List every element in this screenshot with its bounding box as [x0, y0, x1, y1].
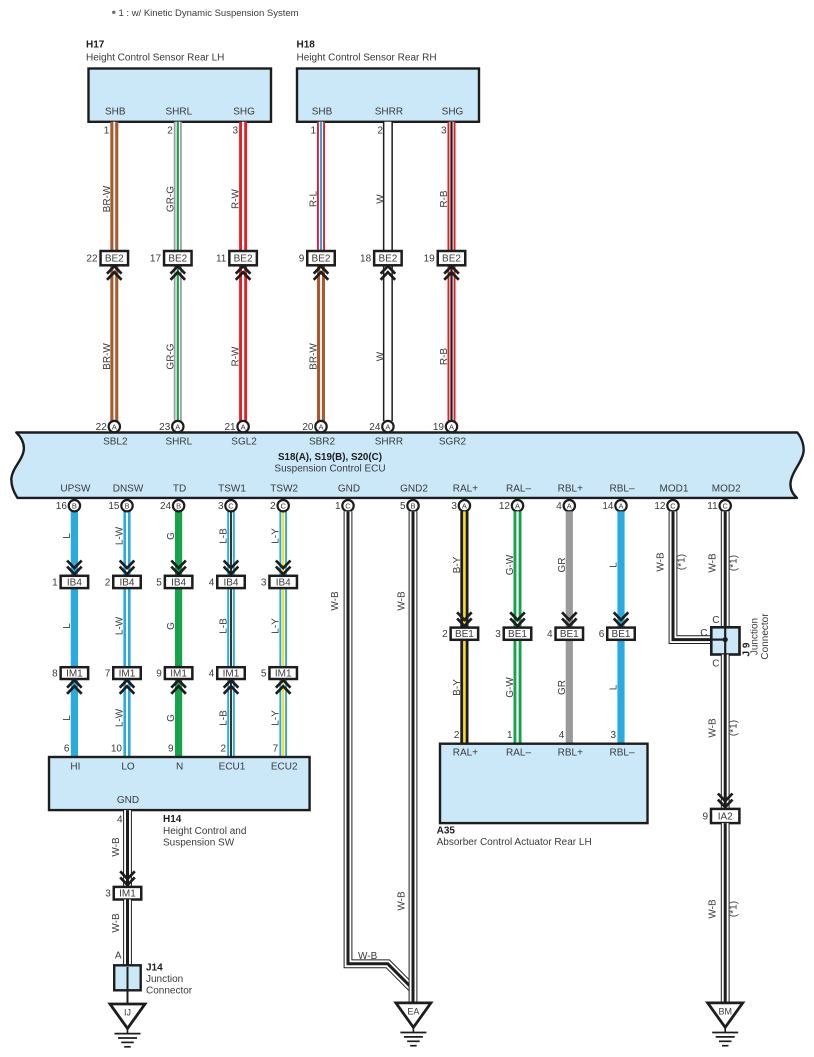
svg-text:BR-W: BR-W	[102, 343, 113, 370]
label H14 description line2	[163, 838, 235, 849]
H14 pin 7	[273, 744, 279, 755]
wire label BR-W	[102, 185, 113, 212]
svg-text:(*1): (*1)	[729, 720, 740, 736]
svg-text:SHG: SHG	[233, 107, 255, 118]
svg-text:Junction: Junction	[146, 974, 183, 985]
J9 pin C top	[712, 615, 719, 626]
svg-text:A: A	[115, 951, 122, 962]
connector BE1 pin 2	[442, 628, 478, 641]
svg-text:TSW1: TSW1	[218, 484, 246, 495]
svg-text:4: 4	[209, 669, 215, 680]
svg-text:RBL+: RBL+	[558, 484, 583, 495]
label A35	[437, 826, 456, 837]
wire SGR2 upper R-B	[448, 122, 456, 251]
svg-text:Suspension SW: Suspension SW	[163, 838, 235, 849]
A35 terminal RBL-	[609, 748, 634, 759]
H14 pin 2	[220, 744, 226, 755]
svg-text:G-W: G-W	[505, 554, 516, 575]
label J9	[742, 642, 753, 656]
svg-text:Absorber Control Actuator Rear: Absorber Control Actuator Rear LH	[437, 837, 592, 848]
J9 pin C bottom	[712, 659, 719, 670]
svg-text:(*1): (*1)	[677, 554, 688, 570]
wire label W-B GND2 upper	[397, 591, 408, 611]
svg-text:IB4: IB4	[67, 577, 82, 588]
ECU terminal SBR2	[309, 437, 336, 448]
connector BE2 pin 18	[360, 251, 402, 265]
svg-text:H17: H17	[86, 40, 105, 51]
wire label R-B	[439, 190, 450, 208]
H18 terminal SHRR	[375, 107, 403, 118]
svg-text:GR-G: GR-G	[165, 343, 176, 369]
svg-text:18: 18	[360, 254, 372, 265]
svg-text:H14: H14	[163, 814, 182, 825]
svg-text:3: 3	[218, 501, 224, 512]
wire label G upper	[166, 532, 177, 540]
ECU connector C pin 12 (MOD1)	[654, 500, 678, 512]
svg-text:BE2: BE2	[105, 254, 124, 265]
wire label L-W middle	[115, 616, 126, 635]
svg-text:4: 4	[547, 629, 553, 640]
ECU terminal SHRR	[375, 437, 403, 448]
svg-text:A: A	[241, 423, 246, 432]
wire label L-W upper	[115, 526, 126, 545]
A35 terminal RBL+	[558, 748, 583, 759]
svg-text:2: 2	[270, 501, 276, 512]
wire label L-Y upper	[271, 528, 282, 544]
svg-text:24: 24	[160, 501, 172, 512]
svg-text:2: 2	[442, 629, 448, 640]
svg-text:3: 3	[610, 730, 616, 741]
svg-text:12: 12	[499, 501, 511, 512]
svg-text:RBL–: RBL–	[609, 484, 634, 495]
ECU terminal MOD2	[712, 484, 741, 495]
svg-text:BE2: BE2	[312, 254, 331, 265]
ECU terminal SGL2	[231, 437, 257, 448]
svg-text:B: B	[176, 502, 181, 511]
svg-text:Height Control Sensor Rear LH: Height Control Sensor Rear LH	[86, 53, 224, 64]
pin 3 of H sensor	[233, 126, 239, 137]
wire SBL2 upper BR-W	[110, 122, 118, 251]
wire IM1 to J14 W-B	[123, 900, 132, 966]
svg-text:BE1: BE1	[560, 629, 579, 640]
label J14	[146, 963, 163, 974]
svg-text:SHRR: SHRR	[375, 107, 403, 118]
ECU connector B pin 15 (DNSW)	[108, 500, 132, 512]
A35 terminal RAL+	[453, 748, 478, 759]
connector arrows into BE1 6	[614, 612, 629, 626]
wire GND W-B	[348, 511, 413, 989]
H14 terminal HI	[70, 762, 80, 773]
ECU terminal UPSW	[60, 484, 91, 495]
svg-text:L-B: L-B	[219, 528, 230, 544]
connector IM1 pin 3	[105, 887, 141, 900]
svg-text:G-W: G-W	[505, 677, 516, 698]
wire label W-B above BM	[708, 899, 719, 919]
J9 pin C left	[700, 628, 707, 639]
connector arrows into BE2 22	[107, 266, 122, 280]
H14 terminal N	[176, 762, 183, 773]
wire label GR-G	[165, 343, 176, 369]
connector BE1 pin 3	[495, 628, 531, 641]
svg-text:IB4: IB4	[171, 577, 186, 588]
wire SBR2 upper R-L	[317, 122, 325, 251]
connector arrows into IM1 5	[276, 680, 291, 694]
svg-text:SHB: SHB	[105, 107, 126, 118]
connector IA2 pin 9	[702, 809, 739, 823]
svg-text:4: 4	[209, 577, 215, 588]
wire SGR2 lower R-B	[448, 265, 456, 421]
svg-text:R-W: R-W	[231, 346, 242, 367]
ECU terminal MOD1	[660, 484, 689, 495]
svg-text:IB4: IB4	[276, 577, 291, 588]
svg-text:LO: LO	[121, 762, 135, 773]
svg-text:A: A	[515, 502, 520, 511]
svg-text:SHRL: SHRL	[165, 437, 192, 448]
svg-text:BE1: BE1	[508, 629, 527, 640]
wire label L-Y middle	[271, 618, 282, 634]
connector BE1 pin 4	[547, 628, 583, 641]
svg-text:12: 12	[654, 501, 666, 512]
connector arrows into BE1 4	[562, 612, 577, 626]
svg-text:C: C	[712, 659, 719, 670]
wire label L upper	[62, 533, 73, 539]
svg-text:L: L	[609, 562, 620, 568]
svg-text:SGL2: SGL2	[231, 437, 257, 448]
component H17 Height Control Sensor Rear LH	[89, 69, 272, 122]
svg-text:L-W: L-W	[115, 616, 126, 635]
svg-text:IM1: IM1	[119, 669, 136, 680]
svg-text:W-B: W-B	[358, 951, 378, 962]
wire RAL- G-W	[514, 511, 522, 743]
wire label R-L	[309, 191, 320, 208]
junction dot J9	[723, 637, 728, 642]
wire label L-W lower	[115, 708, 126, 727]
connector BE2 pin 11	[216, 251, 257, 265]
ECU terminal GND2	[400, 484, 428, 495]
svg-text:8: 8	[52, 669, 58, 680]
svg-text:ECU2: ECU2	[271, 762, 298, 773]
svg-text:9: 9	[702, 812, 708, 823]
svg-text:1: 1	[310, 126, 316, 137]
ECU connector B pin 16 (UPSW)	[56, 500, 80, 512]
svg-text:3: 3	[441, 126, 447, 137]
svg-text:IB4: IB4	[119, 577, 134, 588]
H14 terminal LO	[121, 762, 135, 773]
ECU terminal GND	[338, 484, 360, 495]
wire N G	[175, 511, 182, 757]
svg-text:C: C	[345, 502, 351, 511]
wire label R-W	[231, 346, 242, 367]
H18 terminal SHB	[312, 107, 333, 118]
svg-text:IM1: IM1	[223, 669, 240, 680]
svg-text:2: 2	[167, 126, 173, 137]
ECU connector A pin 20 (SBR2)	[302, 421, 326, 433]
wire LO L-W	[123, 511, 130, 757]
wire RBL- L	[617, 511, 624, 743]
A35 pin 4	[559, 730, 565, 741]
connector arrows into BE2 9	[314, 266, 329, 280]
ECU connector A pin 12 (RAL-)	[499, 500, 523, 512]
svg-text:SHRL: SHRL	[165, 107, 192, 118]
ECU terminal SBL2	[103, 437, 128, 448]
connector BE2 pin 19	[424, 251, 466, 265]
wire label (*1) MOD2	[729, 555, 740, 571]
svg-text:Height Control and: Height Control and	[163, 826, 246, 837]
connector BE1 pin 6	[599, 628, 635, 641]
svg-text:9: 9	[299, 254, 305, 265]
svg-text:A: A	[385, 423, 390, 432]
svg-text:Junction: Junction	[750, 618, 761, 655]
label H17	[86, 40, 105, 51]
svg-text:B: B	[410, 502, 415, 511]
wire label L-B middle	[219, 618, 230, 634]
wire ECU1 L-B	[227, 511, 235, 757]
wire label W-B lower	[111, 913, 122, 933]
svg-text:W-B: W-B	[397, 891, 408, 911]
svg-text:R-L: R-L	[309, 191, 320, 208]
connector IB4 pin 4	[209, 576, 245, 589]
svg-text:RAL+: RAL+	[453, 484, 478, 495]
svg-text:22: 22	[86, 254, 98, 265]
connector IM1 pin 8	[52, 667, 88, 679]
svg-text:3: 3	[233, 126, 239, 137]
connector IB4 pin 2	[105, 576, 141, 589]
H17 terminal SHB	[105, 107, 126, 118]
connector BE2 pin 17	[150, 251, 192, 265]
svg-text:SBR2: SBR2	[309, 437, 336, 448]
H14 pin 10	[111, 744, 123, 755]
svg-text:C: C	[722, 502, 728, 511]
connector arrows into BE2 18	[381, 266, 396, 280]
component H18 Height Control Sensor Rear RH	[297, 69, 479, 122]
connector arrows into IM1 3	[120, 871, 135, 885]
wire label W-B MOD1	[656, 552, 667, 572]
svg-text:C: C	[280, 502, 286, 511]
svg-text:14: 14	[602, 501, 614, 512]
svg-text:17: 17	[150, 254, 162, 265]
svg-text:1: 1	[335, 501, 341, 512]
svg-text:RBL–: RBL–	[609, 748, 634, 759]
connector IB4 pin 1	[52, 576, 88, 589]
svg-text:W-B: W-B	[111, 837, 122, 857]
svg-text:BE2: BE2	[378, 254, 397, 265]
svg-text:SBL2: SBL2	[103, 437, 128, 448]
connector arrows into IM1 7	[120, 680, 135, 694]
connector arrows into IA2 9	[718, 794, 733, 808]
H14 pin 9	[168, 744, 174, 755]
svg-text:MOD1: MOD1	[660, 484, 689, 495]
svg-text:3: 3	[495, 629, 501, 640]
svg-text:R-B: R-B	[439, 190, 450, 208]
wire SHRL upper GR-G	[174, 122, 182, 251]
label J14 description line2	[146, 986, 193, 997]
wire label B-Y lower	[452, 679, 463, 696]
J14 pin A	[115, 951, 122, 962]
wire MOD2 W-B upper	[721, 511, 730, 627]
svg-text:11: 11	[707, 501, 718, 512]
pin 2 of H sensor	[377, 126, 383, 137]
wire label L middle	[62, 623, 73, 629]
svg-text:B: B	[72, 502, 77, 511]
svg-text:G: G	[166, 532, 177, 540]
wire H14 GND W-B upper	[123, 810, 132, 887]
svg-text:3: 3	[105, 889, 111, 900]
wire RBL+ GR	[566, 511, 573, 743]
junction connector J9	[711, 627, 739, 654]
connector IB4 pin 5	[156, 576, 192, 589]
svg-text:1: 1	[104, 126, 110, 137]
label H18 description	[297, 53, 437, 64]
ECU terminal TD	[173, 484, 186, 495]
A35 pin 1	[507, 730, 513, 741]
wire GND2 W-B	[409, 511, 418, 1003]
ECU block S18/S19/S20 Suspension Control ECU	[11, 433, 803, 498]
ECU terminal SHRL	[165, 437, 192, 448]
wire label (*1) below J9	[729, 720, 740, 736]
label H14 description line1	[163, 826, 246, 837]
svg-text:W-B: W-B	[708, 553, 719, 573]
pin 2 of H sensor	[167, 126, 173, 137]
H14 terminal ECU2	[271, 762, 298, 773]
wire label L-Y lower	[271, 710, 282, 726]
svg-text:IM1: IM1	[275, 669, 292, 680]
svg-text:ECU1: ECU1	[219, 762, 246, 773]
svg-text:3: 3	[261, 577, 267, 588]
H18 terminal SHG	[442, 107, 464, 118]
wire HI L	[71, 511, 78, 757]
svg-text:SHG: SHG	[442, 107, 464, 118]
svg-text:L-B: L-B	[219, 710, 230, 726]
svg-text:15: 15	[108, 501, 120, 512]
wire label (*1) MOD1	[677, 554, 688, 570]
svg-text:7: 7	[105, 669, 111, 680]
svg-text:DNSW: DNSW	[113, 484, 144, 495]
svg-text:L-B: L-B	[219, 618, 230, 634]
wire label GR upper	[557, 558, 568, 573]
wire label L-B lower	[219, 710, 230, 726]
svg-text:6: 6	[599, 629, 605, 640]
wire label W-B MOD2	[708, 553, 719, 573]
svg-text:SHB: SHB	[312, 107, 333, 118]
ECU terminal RAL-	[506, 484, 531, 495]
svg-text:W-B: W-B	[111, 913, 122, 933]
wire label W-B below J9	[708, 718, 719, 738]
svg-text:L-Y: L-Y	[271, 528, 282, 544]
wire label BR-W	[309, 343, 320, 370]
svg-text:L-W: L-W	[115, 708, 126, 727]
H14 pin 4	[117, 815, 123, 826]
wire label B-Y upper	[452, 556, 463, 573]
svg-text:A: A	[618, 502, 623, 511]
connector arrows into IM1 8	[67, 680, 82, 694]
svg-text:2: 2	[105, 577, 111, 588]
svg-text:RBL+: RBL+	[558, 748, 583, 759]
svg-text:A: A	[449, 423, 454, 432]
H14 pin 6	[64, 744, 70, 755]
wire label G-W upper	[505, 554, 516, 575]
component H14 Height Control and Suspension SW	[49, 757, 310, 810]
svg-text:C: C	[700, 628, 707, 639]
H14 terminal ECU1	[219, 762, 246, 773]
svg-text:TD: TD	[173, 484, 186, 495]
note *1 w/ Kinetic Dynamic Suspension System	[119, 8, 299, 19]
svg-text:G: G	[166, 622, 177, 630]
svg-text:1: 1	[52, 577, 58, 588]
component A35 Absorber Control Actuator Rear LH	[440, 744, 648, 823]
ground BM	[708, 1003, 743, 1046]
connector arrows into IB4 4	[224, 561, 239, 575]
svg-text:Connector: Connector	[760, 613, 771, 660]
svg-text:C: C	[228, 502, 234, 511]
ECU connector A pin 14 (RBL-)	[602, 500, 626, 512]
wire label R-W	[231, 188, 242, 209]
wire SBR2 lower BR-W	[317, 265, 325, 421]
svg-text:R-W: R-W	[231, 188, 242, 209]
connector arrows into IB4 2	[120, 561, 135, 575]
wire label L lower	[62, 715, 73, 721]
svg-text:N: N	[176, 762, 183, 773]
svg-text:L: L	[62, 623, 73, 629]
ECU terminal SGR2	[439, 437, 467, 448]
svg-text:BE2: BE2	[442, 254, 461, 265]
ECU connector A pin 23 (SHRL)	[159, 421, 183, 433]
svg-text:16: 16	[56, 501, 68, 512]
label A35 description	[437, 837, 592, 848]
wire ECU2 L-Y	[279, 511, 287, 757]
svg-text:W-B: W-B	[708, 718, 719, 738]
ECU connector C pin 1 (GND)	[335, 500, 354, 512]
wire label W-B at bend	[358, 951, 378, 962]
svg-text:L: L	[62, 715, 73, 721]
connector IM1 pin 9	[156, 667, 192, 679]
svg-text:IB4: IB4	[223, 577, 238, 588]
svg-text:B: B	[124, 502, 129, 511]
svg-text:10: 10	[111, 744, 123, 755]
svg-text:R-B: R-B	[439, 348, 450, 366]
wire label G lower	[166, 714, 177, 722]
ECU terminal TSW2	[270, 484, 298, 495]
wire label (*1) above BM	[729, 901, 740, 917]
ECU terminal TSW1	[218, 484, 246, 495]
wire RAL+ B-Y	[460, 511, 468, 743]
svg-text:Suspension Control ECU: Suspension Control ECU	[274, 464, 385, 475]
wire label G middle	[166, 622, 177, 630]
connector BE2 pin 22	[86, 251, 128, 265]
ECU description Suspension Control ECU	[274, 464, 385, 475]
svg-text:IM1: IM1	[66, 669, 83, 680]
connector arrows into BE2 11	[236, 266, 251, 280]
ECU connector C pin 3 (TSW1)	[218, 500, 237, 512]
ECU connector C pin 2 (TSW2)	[270, 500, 289, 512]
connector arrows into IM1 9	[171, 680, 186, 694]
ECU connector B pin 5 (GND2)	[400, 500, 419, 512]
connector IM1 pin 4	[209, 667, 245, 679]
svg-text:A: A	[112, 423, 117, 432]
label H17 description	[86, 53, 224, 64]
svg-text:A: A	[567, 502, 572, 511]
connector IM1 pin 7	[105, 667, 141, 679]
ECU designators S18(A), S19(B), S20(C)	[278, 452, 382, 463]
wire label W-B	[111, 837, 122, 857]
svg-text:(*1): (*1)	[729, 555, 740, 571]
connector arrows into BE1 3	[510, 612, 525, 626]
svg-text:9: 9	[168, 744, 174, 755]
svg-text:EA: EA	[407, 1006, 419, 1016]
svg-text:2: 2	[377, 126, 383, 137]
wire label W	[375, 351, 386, 361]
svg-text:4: 4	[559, 730, 565, 741]
svg-text:C: C	[670, 502, 676, 511]
